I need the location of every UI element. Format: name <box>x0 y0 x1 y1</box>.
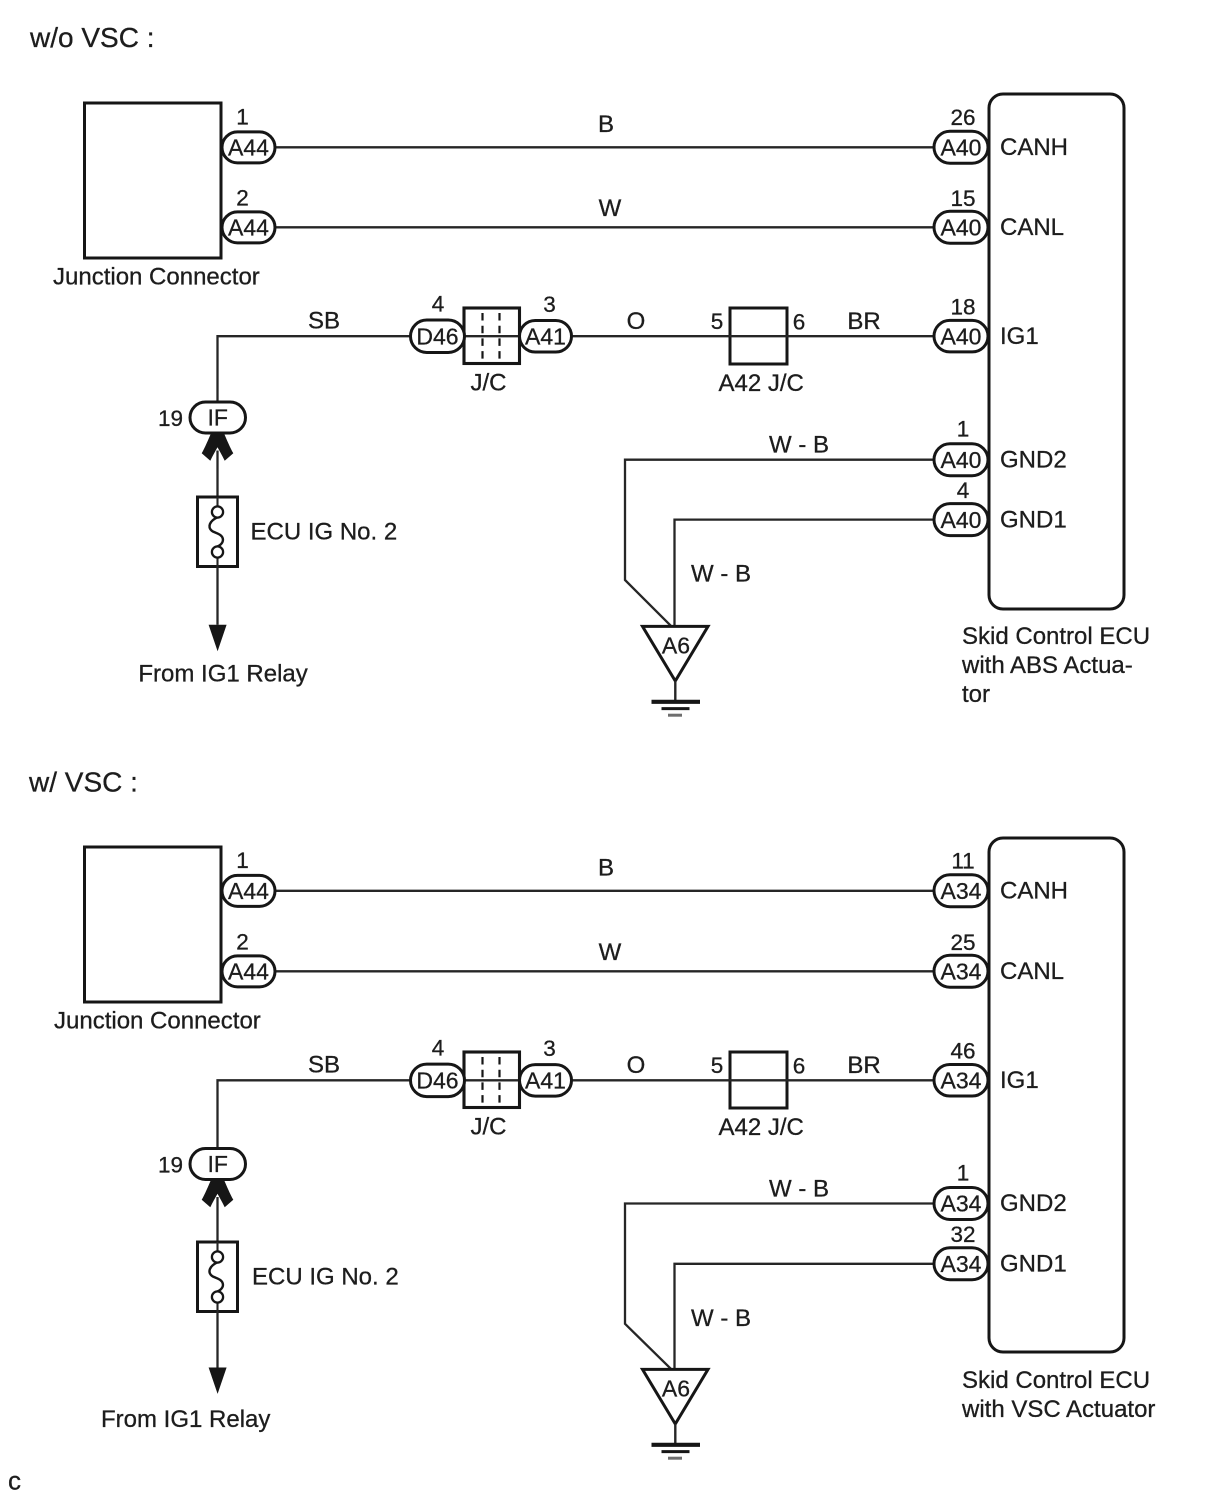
label Skid Control ECU ... <box>961 623 1150 708</box>
connector A44 pin 2 <box>222 956 275 987</box>
svg-text:CANL: CANL <box>1000 958 1064 985</box>
svg-text:BR: BR <box>847 1052 880 1079</box>
svg-text:A34: A34 <box>941 1191 982 1217</box>
svg-text:A42 J/C: A42 J/C <box>719 1114 804 1141</box>
wire B (CANH) <box>275 146 934 148</box>
svg-text:5: 5 <box>711 1053 724 1078</box>
svg-text:c: c <box>8 1466 21 1496</box>
fuse ECU IG No. 2 <box>198 1242 238 1312</box>
svg-text:6: 6 <box>793 1054 806 1079</box>
svg-text:26: 26 <box>950 105 975 130</box>
connector A44 pin 1 <box>222 132 275 163</box>
connector A41 pin 3 <box>520 321 572 353</box>
arrow into IF connector <box>202 1179 234 1207</box>
ground connector A6 <box>643 1369 709 1424</box>
svg-text:1: 1 <box>957 417 970 442</box>
svg-text:w/ VSC :: w/ VSC : <box>28 767 138 798</box>
wire SB <box>218 336 416 406</box>
svg-text:5: 5 <box>711 309 724 334</box>
connector A34 pin 46 <box>934 1065 988 1097</box>
svg-text:SB: SB <box>308 1052 340 1079</box>
junction block A42 J/C <box>730 308 787 364</box>
svg-text:O: O <box>627 308 646 335</box>
wire SB <box>218 1080 416 1152</box>
svg-text:2: 2 <box>236 186 249 211</box>
wire arrow to fuse <box>216 1197 218 1253</box>
svg-text:W: W <box>599 195 622 222</box>
svg-text:6: 6 <box>793 310 806 335</box>
svg-text:W - B: W - B <box>691 561 751 588</box>
svg-text:GND2: GND2 <box>1000 1190 1067 1217</box>
arrow from IG1 relay <box>209 1368 227 1394</box>
connector D46 pin 4 <box>411 1064 465 1097</box>
svg-text:25: 25 <box>950 930 975 955</box>
wire BR <box>787 335 934 337</box>
connector A40 pin 4 <box>934 504 988 536</box>
svg-text:A44: A44 <box>228 959 269 985</box>
svg-text:GND1: GND1 <box>1000 506 1067 533</box>
svg-text:1: 1 <box>236 105 249 130</box>
svg-text:BR: BR <box>847 308 880 335</box>
wire O <box>570 1079 731 1081</box>
svg-text:3: 3 <box>543 292 556 317</box>
label Skid Control ECU ... <box>961 1367 1155 1423</box>
junction connector box <box>85 103 222 258</box>
svg-text:A40: A40 <box>941 507 982 533</box>
wire O <box>570 335 731 337</box>
connector A40 pin 26 <box>934 131 988 163</box>
connector A44 pin 2 <box>222 212 275 243</box>
wire through A42 J/C <box>731 335 787 337</box>
junction block A42 J/C <box>730 1052 787 1108</box>
svg-text:From IG1 Relay: From IG1 Relay <box>138 661 307 688</box>
svg-text:46: 46 <box>950 1039 975 1064</box>
svg-text:with ABS Actua-: with ABS Actua- <box>961 652 1133 679</box>
connector A40 pin 18 <box>934 320 988 352</box>
svg-text:B: B <box>598 111 614 138</box>
svg-text:15: 15 <box>950 186 975 211</box>
ground symbol <box>652 681 701 715</box>
svg-text:GND1: GND1 <box>1000 1251 1067 1278</box>
ground connector A6 <box>643 626 709 681</box>
svg-text:O: O <box>627 1052 646 1079</box>
wire W (CANL) <box>275 970 934 972</box>
svg-text:A41: A41 <box>525 323 566 349</box>
wire W (CANL) <box>275 226 934 228</box>
svg-text:SB: SB <box>308 308 340 335</box>
fuse ECU IG No. 2 <box>198 497 238 567</box>
wire B (CANH) <box>275 890 934 892</box>
svg-text:From IG1 Relay: From IG1 Relay <box>101 1406 270 1433</box>
svg-text:4: 4 <box>432 292 445 317</box>
connector IF <box>190 402 246 433</box>
svg-text:18: 18 <box>950 295 975 320</box>
svg-text:W - B: W - B <box>769 1175 829 1202</box>
svg-text:D46: D46 <box>416 1068 458 1094</box>
svg-text:CANH: CANH <box>1000 878 1068 905</box>
wire arrow to fuse <box>216 451 218 509</box>
svg-text:W - B: W - B <box>769 432 829 459</box>
svg-text:A34: A34 <box>941 959 982 985</box>
svg-text:A34: A34 <box>941 1251 982 1277</box>
svg-text:IG1: IG1 <box>1000 323 1039 350</box>
svg-text:W - B: W - B <box>691 1305 751 1332</box>
Skid Control ECU box <box>989 838 1124 1352</box>
svg-text:A44: A44 <box>228 878 269 904</box>
connector A34 pin 1 <box>934 1188 988 1220</box>
svg-text:GND2: GND2 <box>1000 446 1067 473</box>
svg-text:A6: A6 <box>662 633 690 659</box>
wire fuse to arrow <box>216 1312 218 1368</box>
wire W-B (GND2) <box>625 1204 934 1370</box>
svg-text:A44: A44 <box>228 135 269 161</box>
svg-text:2: 2 <box>236 930 249 955</box>
svg-text:w/o VSC :: w/o VSC : <box>29 22 154 53</box>
wire W-B (GND1) <box>675 520 935 627</box>
svg-text:A34: A34 <box>941 878 982 904</box>
svg-text:A40: A40 <box>941 447 982 473</box>
svg-text:J/C: J/C <box>471 370 507 397</box>
svg-text:1: 1 <box>957 1160 970 1185</box>
svg-text:19: 19 <box>158 406 183 431</box>
wire BR <box>787 1079 934 1081</box>
wire through A42 J/C <box>731 1079 787 1081</box>
svg-text:A34: A34 <box>941 1067 982 1093</box>
connector A34 pin 11 <box>934 875 988 907</box>
svg-text:A6: A6 <box>662 1376 690 1402</box>
svg-text:CANL: CANL <box>1000 214 1064 241</box>
arrow from IG1 relay <box>209 625 227 651</box>
svg-text:tor: tor <box>962 681 990 708</box>
svg-text:IG1: IG1 <box>1000 1067 1039 1094</box>
connector A34 pin 32 <box>934 1248 988 1280</box>
connector IF <box>190 1149 246 1180</box>
connector A40 pin 15 <box>934 211 988 243</box>
svg-text:IF: IF <box>208 1151 228 1177</box>
svg-text:A40: A40 <box>941 323 982 349</box>
svg-text:3: 3 <box>543 1036 556 1061</box>
connector A44 pin 1 <box>222 875 275 906</box>
wire W-B (GND1) <box>675 1264 935 1370</box>
svg-text:D46: D46 <box>416 323 458 349</box>
svg-text:CANH: CANH <box>1000 134 1068 161</box>
svg-text:19: 19 <box>158 1153 183 1178</box>
svg-text:J/C: J/C <box>471 1114 507 1141</box>
ground symbol <box>652 1424 701 1458</box>
svg-text:32: 32 <box>950 1222 975 1247</box>
svg-text:with VSC Actuator: with VSC Actuator <box>961 1396 1155 1423</box>
svg-text:Junction Connector: Junction Connector <box>54 1008 261 1035</box>
svg-text:4: 4 <box>957 478 970 503</box>
junction connector box <box>85 847 222 1002</box>
svg-text:Skid Control ECU: Skid Control ECU <box>962 1367 1150 1394</box>
svg-text:A40: A40 <box>941 135 982 161</box>
wire through J/C <box>462 335 521 337</box>
svg-text:A44: A44 <box>228 215 269 241</box>
svg-text:A40: A40 <box>941 215 982 241</box>
svg-text:A41: A41 <box>525 1068 566 1094</box>
svg-text:ECU IG No. 2: ECU IG No. 2 <box>251 519 398 546</box>
svg-text:W: W <box>599 939 622 966</box>
svg-text:1: 1 <box>236 848 249 873</box>
wire W-B (GND2) <box>625 460 934 627</box>
svg-text:4: 4 <box>432 1036 445 1061</box>
svg-text:Skid Control ECU: Skid Control ECU <box>962 623 1150 650</box>
connector D46 pin 4 <box>411 320 465 353</box>
svg-text:11: 11 <box>951 849 974 874</box>
junction block J/C (dashed) <box>464 1052 520 1108</box>
svg-text:A42 J/C: A42 J/C <box>719 370 804 397</box>
svg-text:ECU IG No. 2: ECU IG No. 2 <box>252 1264 399 1291</box>
connector A41 pin 3 <box>520 1065 572 1097</box>
wire through J/C <box>462 1079 521 1081</box>
svg-text:IF: IF <box>208 405 228 431</box>
Skid Control ECU box <box>989 94 1124 609</box>
junction block J/C (dashed) <box>464 308 520 364</box>
connector A34 pin 25 <box>934 955 988 987</box>
wire fuse to arrow <box>216 567 218 625</box>
svg-text:Junction Connector: Junction Connector <box>53 264 260 291</box>
svg-text:B: B <box>598 855 614 882</box>
connector A40 pin 1 <box>934 444 988 476</box>
arrow into IF connector <box>202 433 234 461</box>
